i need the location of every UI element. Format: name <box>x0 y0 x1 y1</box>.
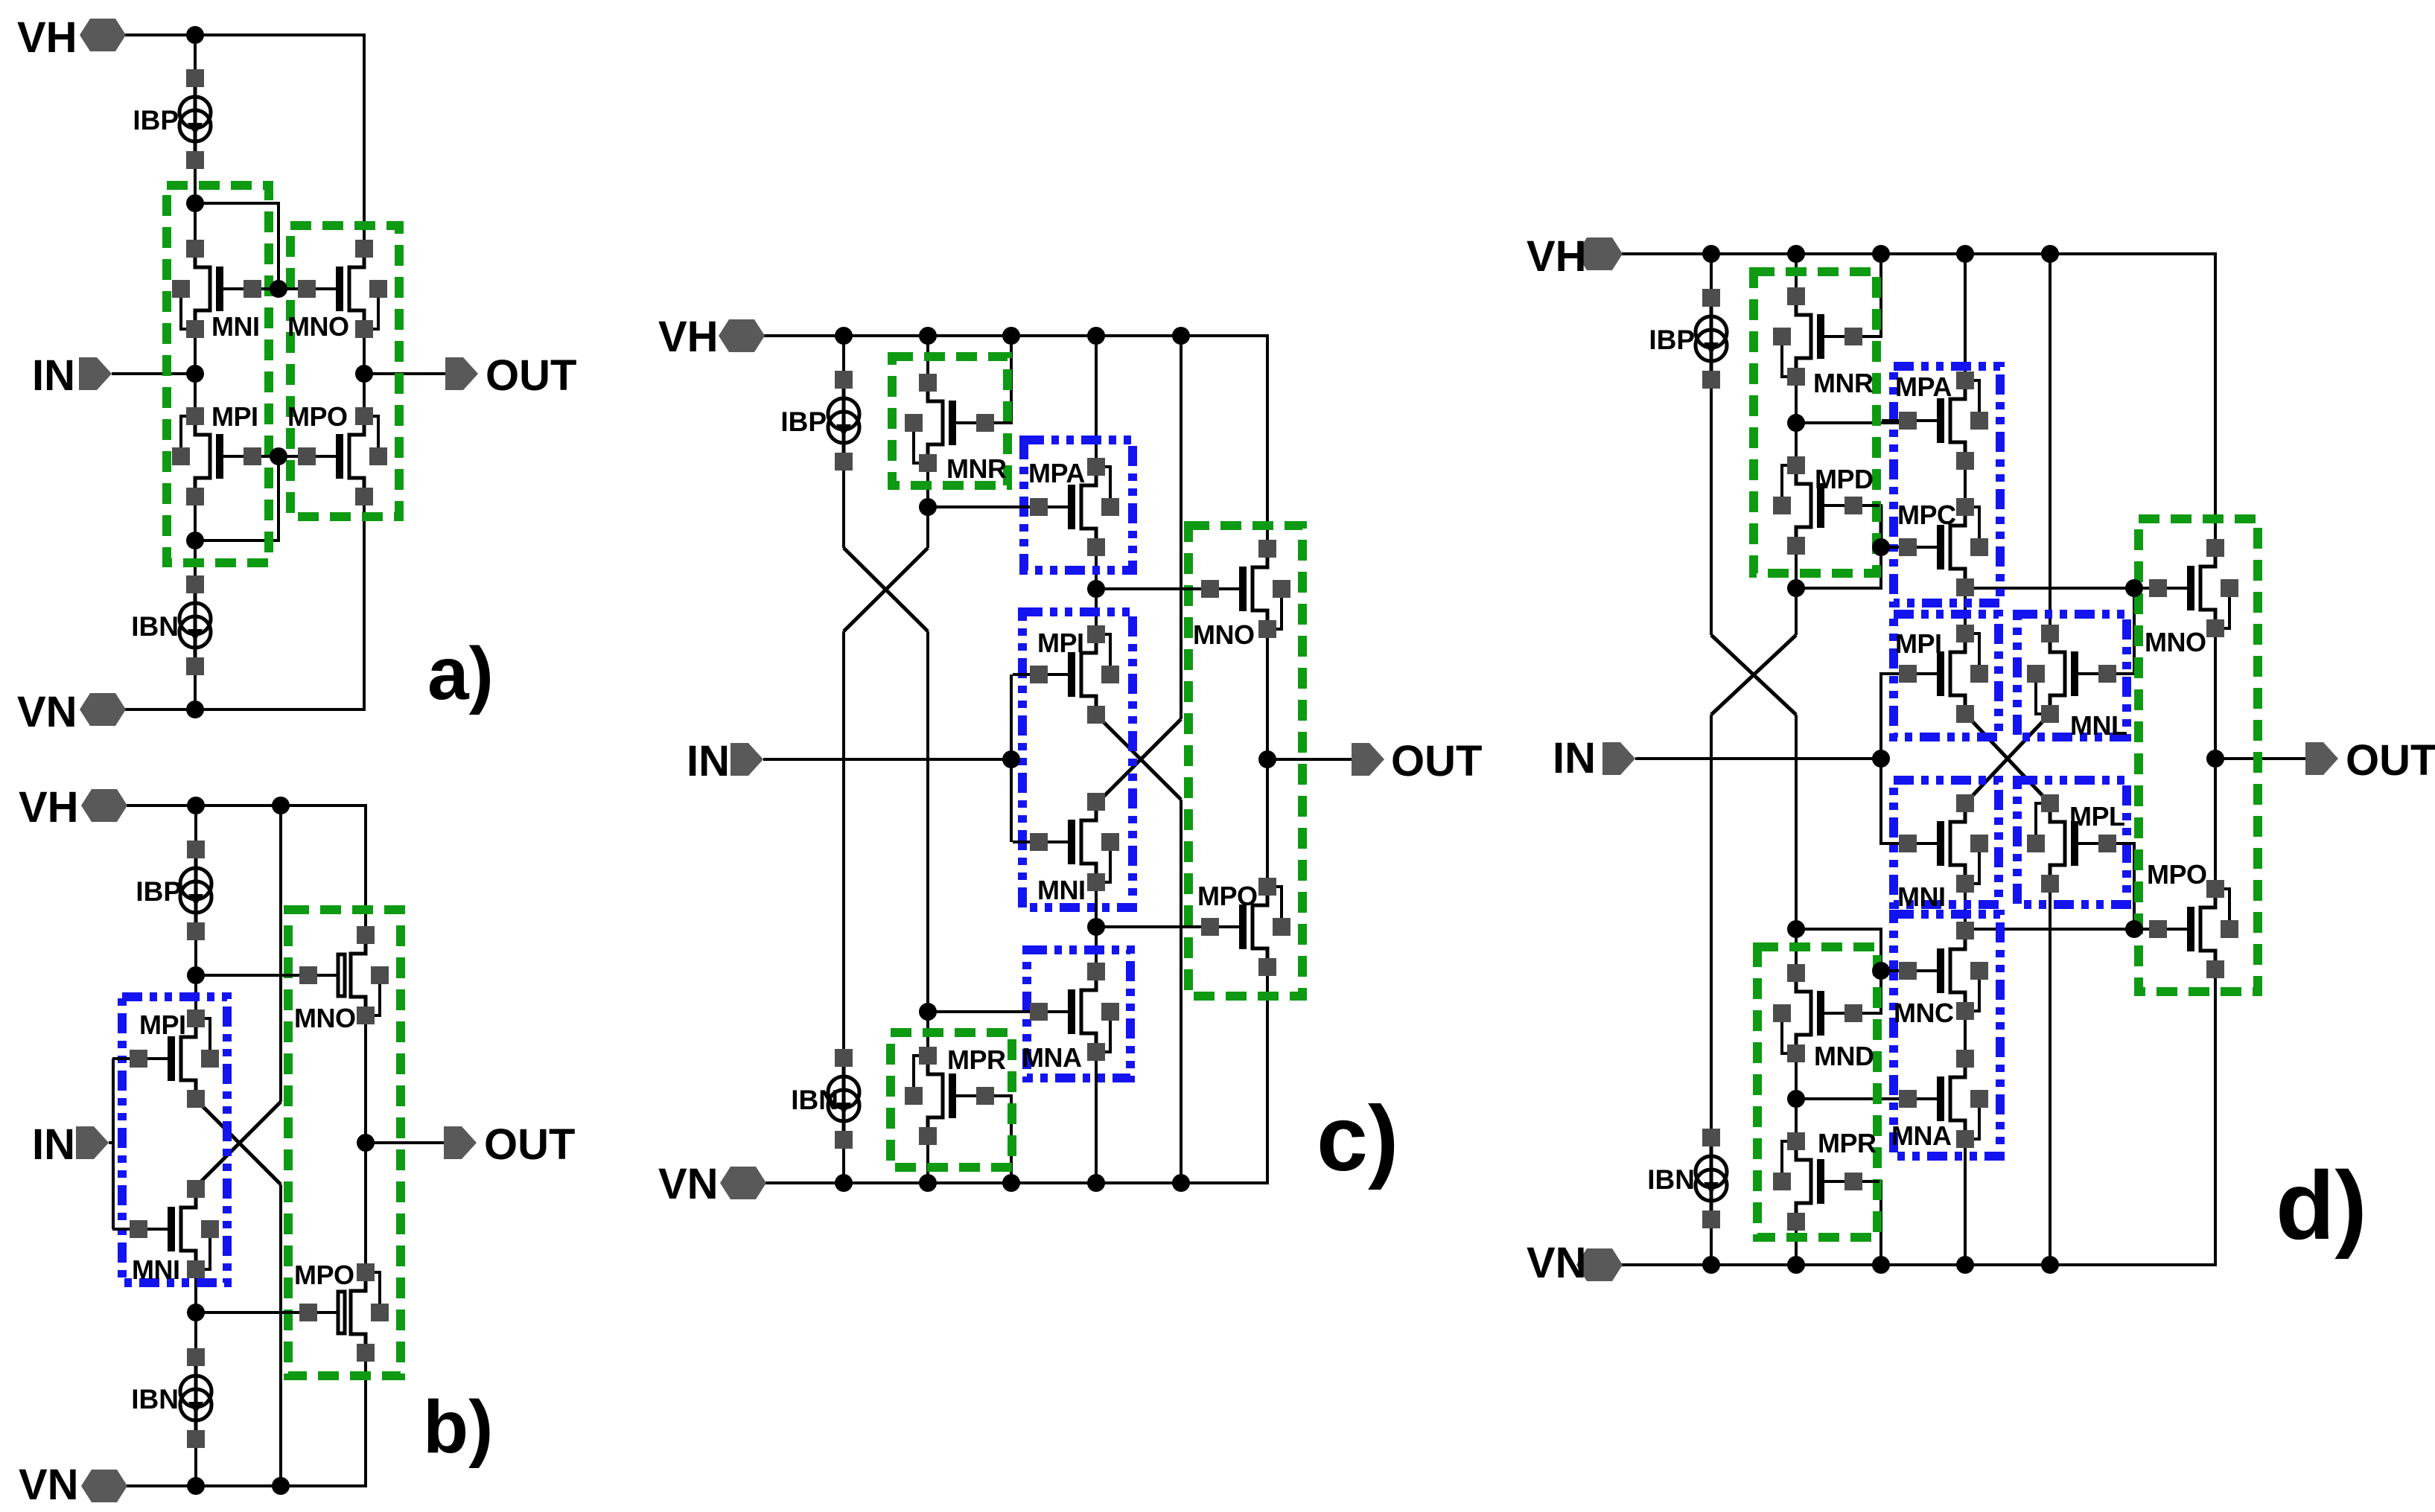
wire d MPD diode tie <box>1796 505 1881 588</box>
node c VN junction 5 <box>1172 1174 1190 1192</box>
wire d MNI to MNC <box>1964 884 1967 929</box>
node b IBP node <box>187 966 205 984</box>
node c VH junction 3 <box>1002 327 1020 345</box>
wire a left low column <box>194 497 197 584</box>
wire c MNI node to MPO gate <box>1096 925 1212 928</box>
svg-text:MPA: MPA <box>1028 458 1085 488</box>
transistor MNR c <box>905 374 1011 484</box>
wire d MNO gate row <box>1974 587 2158 590</box>
transistor MNL d <box>2027 625 2133 741</box>
highlight box d output pair box <box>2139 519 2258 992</box>
node a OUT node <box>355 365 373 383</box>
highlight box d MPA MPC box <box>1894 366 2000 603</box>
svg-text:VN: VN <box>19 1461 79 1509</box>
svg-text:IBN: IBN <box>131 611 179 642</box>
highlight box c MPA box <box>1024 440 1133 570</box>
node d MND source node <box>1787 1090 1805 1108</box>
terminal IN b <box>32 1120 109 1169</box>
node c VH junction 5 <box>1172 327 1190 345</box>
node a VN junction <box>186 701 204 718</box>
svg-text:MPI: MPI <box>139 1009 186 1040</box>
wire c B column lower <box>926 631 929 1056</box>
wire c VH rail and right drop <box>764 336 1267 549</box>
terminal OUT b <box>444 1120 575 1169</box>
node c IN node <box>1002 750 1020 768</box>
highlight box d MPI box <box>1894 614 1999 737</box>
transistor MPL d <box>2027 794 2133 893</box>
node d VH junction 2 <box>1787 245 1805 263</box>
transistor MNO b <box>282 926 389 1033</box>
wire b IBP node to MNO gate <box>196 974 337 977</box>
transistor MNO c <box>1184 540 1290 650</box>
node d OUT node <box>2206 750 2224 768</box>
wire c right cross B <box>1098 717 1181 800</box>
highlight box b output pair box <box>288 910 401 1376</box>
highlight box b input pair box <box>122 997 227 1283</box>
transistor MNI c <box>1013 793 1119 905</box>
transistor MPI c <box>1013 625 1119 724</box>
wire a IN wire <box>112 372 195 375</box>
transistor MPO c <box>1184 878 1290 976</box>
svg-text:OUT: OUT <box>2346 736 2435 785</box>
wire a IBN to VN <box>194 666 197 709</box>
node c VH junction 1 <box>835 327 853 345</box>
wire d IBN column <box>1710 715 1713 1265</box>
wire d MPA to MPC <box>1964 461 1967 507</box>
svg-text:IN: IN <box>32 351 75 400</box>
wire d MPA drain to VH <box>1964 254 1967 380</box>
node c MNI drain node <box>1087 918 1105 936</box>
terminal OUT d <box>2305 736 2435 785</box>
svg-text:b): b) <box>423 1385 493 1469</box>
wire d mid cross A <box>1969 718 2046 800</box>
transistor MPO <box>281 401 387 505</box>
wire d MNO gate drop <box>2106 588 2134 674</box>
wire b MNI to IBN node <box>194 1269 197 1356</box>
svg-text:IBP: IBP <box>136 876 182 907</box>
terminal VN d <box>1527 1239 1623 1287</box>
wire d VN rail and right rise <box>1616 969 2215 1265</box>
wire c IN wire <box>763 758 1011 761</box>
highlight box d MPL box <box>2017 780 2127 905</box>
terminal VH d <box>1527 232 1623 281</box>
svg-text:MNA: MNA <box>1891 1120 1952 1151</box>
wire b cross B <box>198 1102 281 1184</box>
node c VH junction 2 <box>919 327 937 345</box>
svg-text:MPI: MPI <box>1037 628 1084 658</box>
node d MPD drain node <box>1787 579 1805 597</box>
node b VN junction 2 <box>272 1477 290 1495</box>
transistor MNI b <box>112 1180 219 1285</box>
wire c MPA drain to VH <box>1095 336 1098 467</box>
transistor MNA d <box>1882 1050 1988 1151</box>
transistor MNC d <box>1882 922 1988 1028</box>
terminal VH a <box>17 13 126 62</box>
wire d VH rail and right drop <box>1616 254 2215 548</box>
wire d MNA gate row <box>1796 1097 1908 1100</box>
svg-text:VN: VN <box>658 1160 719 1208</box>
wire c MPR source to VN <box>926 1136 929 1183</box>
wire d mid cross B <box>1969 718 2046 800</box>
svg-text:MPR: MPR <box>947 1044 1006 1075</box>
wire c MNO to OUT <box>1266 629 1269 887</box>
current source IBN <box>131 575 211 675</box>
current source IBN d <box>1647 1129 1727 1228</box>
svg-text:MPO: MPO <box>294 1260 354 1290</box>
transistor MPI <box>172 401 278 505</box>
svg-text:MNL: MNL <box>2070 710 2127 741</box>
terminal VN c <box>658 1160 766 1208</box>
node d VH junction 3 <box>1872 245 1890 263</box>
node d MNR source node <box>1787 414 1805 432</box>
node d VH junction 4 <box>1956 245 1974 263</box>
transistor MNI d <box>1882 794 1988 912</box>
svg-text:c): c) <box>1317 1088 1398 1190</box>
svg-text:IBN: IBN <box>791 1085 838 1115</box>
node d IN node <box>1872 750 1890 768</box>
transistor MPR c <box>905 1044 1011 1145</box>
wire d MNO to OUT <box>2214 628 2217 889</box>
svg-text:MNA: MNA <box>1022 1042 1082 1073</box>
highlight box a output pair box <box>290 226 399 517</box>
node a IN node <box>186 365 204 383</box>
node d MND drain node <box>1787 920 1805 938</box>
node c MNR source node <box>919 498 937 516</box>
svg-text:MPL: MPL <box>2069 801 2125 832</box>
svg-text:OUT: OUT <box>1391 737 1482 785</box>
wire b cross vertical lower <box>279 1184 282 1486</box>
svg-text:MNO: MNO <box>287 311 349 342</box>
svg-text:VH: VH <box>17 13 77 62</box>
svg-text:MPR: MPR <box>1818 1128 1877 1158</box>
wire b cross vertical upper <box>279 806 282 1102</box>
wire a left mid column <box>194 329 197 416</box>
wire c MNI to MNA <box>1095 882 1098 972</box>
current source IBP c <box>780 371 859 470</box>
node b VH junction 1 <box>187 797 205 814</box>
node b VN junction 1 <box>187 1477 205 1495</box>
transistor MNO <box>281 240 387 342</box>
wire d MND column <box>1795 715 1798 973</box>
svg-text:VH: VH <box>1527 232 1587 281</box>
node d VN junction 4 <box>1956 1256 1974 1274</box>
transistor MPC d <box>1882 498 1988 596</box>
wire b IBP column <box>194 806 197 1018</box>
transistor MPR d <box>1773 1128 1879 1231</box>
transistor MPA c <box>1013 458 1119 556</box>
wire c right cross A <box>1098 719 1181 802</box>
node b OUT node <box>357 1134 375 1152</box>
transistor MPO b <box>282 1260 389 1362</box>
wire d MNC gate row <box>1881 969 1908 972</box>
wire b IBN node to MPO gate <box>196 1311 337 1314</box>
node d VN junction 1 <box>1702 1256 1720 1274</box>
wire d MND to MPR <box>1795 1055 1798 1141</box>
svg-text:MNO: MNO <box>2145 627 2206 657</box>
svg-text:VH: VH <box>19 783 79 832</box>
node d VN junction 5 <box>2041 1256 2059 1274</box>
node d MNC gate node <box>1872 962 1890 980</box>
svg-text:VN: VN <box>17 688 77 736</box>
wire c MPR gate to VN <box>956 1096 1011 1183</box>
highlight box c output pair box <box>1188 526 1302 996</box>
highlight box d MNR MPD box <box>1754 272 1877 573</box>
terminal VN b <box>19 1461 127 1509</box>
wire a MPI diode tie <box>195 456 278 540</box>
wire c MPA node to MNO gate <box>1096 587 1212 590</box>
svg-text:VH: VH <box>658 313 719 361</box>
svg-text:MNI: MNI <box>1037 875 1086 905</box>
wire b VH rail and right drop <box>127 806 366 935</box>
svg-text:d): d) <box>2276 1151 2367 1260</box>
wire a OUT wire <box>364 372 447 375</box>
wire d MNL drain to VH <box>2049 254 2052 634</box>
node d MNO gate node <box>2125 579 2143 597</box>
svg-text:a): a) <box>427 632 494 715</box>
wire c cross vertical lower <box>1180 800 1183 1183</box>
svg-text:IBN: IBN <box>1647 1164 1695 1195</box>
node a VH junction <box>186 26 204 44</box>
node b VH junction 2 <box>272 797 290 814</box>
svg-text:OUT: OUT <box>486 351 576 400</box>
node c VN junction 3 <box>1002 1174 1020 1192</box>
svg-text:IN: IN <box>687 737 730 785</box>
wire b MNO to OUT <box>364 1015 367 1272</box>
wire d IN wire <box>1635 757 1881 760</box>
node d MPO gate node <box>2125 920 2143 938</box>
transistor MNA c <box>1013 963 1119 1073</box>
wire c OUT wire <box>1267 758 1352 761</box>
node c VN junction 2 <box>919 1174 937 1192</box>
svg-text:VN: VN <box>1527 1239 1587 1287</box>
wire d MPR gate to VN <box>1824 1181 1881 1265</box>
terminal OUT c <box>1352 737 1482 785</box>
wire d MNC to MNA <box>1964 1011 1967 1059</box>
highlight box d MNC MNA box <box>1894 914 2000 1156</box>
wire d MNRsrc to MPA gate <box>1796 421 1908 424</box>
transistor MNR d <box>1773 287 1879 398</box>
svg-text:IBP: IBP <box>133 105 179 135</box>
terminal VH c <box>658 313 765 361</box>
wire c MPA to MPI <box>1095 547 1098 634</box>
current source IBP b <box>136 840 211 940</box>
svg-text:MPA: MPA <box>1895 371 1952 402</box>
terminal OUT a <box>445 351 576 400</box>
highlight box c input pair box <box>1022 612 1133 907</box>
terminal IN d <box>1553 734 1635 782</box>
node d VN junction 3 <box>1872 1256 1890 1274</box>
svg-text:MNC: MNC <box>1894 998 1954 1028</box>
wire c VN rail and right rise <box>765 967 1267 1183</box>
svg-text:MNI: MNI <box>211 311 260 342</box>
highlight box c MPR box <box>891 1033 1012 1167</box>
node a N gate node <box>270 280 287 298</box>
wire b IN rail <box>109 1059 113 1229</box>
node d VN junction 2 <box>1787 1256 1805 1274</box>
node c VN junction 4 <box>1087 1174 1105 1192</box>
svg-text:MPD: MPD <box>1815 464 1874 494</box>
wire d MPC gate row <box>1881 546 1908 549</box>
transistor MNO d <box>2132 539 2238 657</box>
wire d OUT wire <box>2215 757 2305 760</box>
wire d MPD to cross <box>1795 546 1798 635</box>
wire c IBP column <box>842 336 845 548</box>
svg-text:IBP: IBP <box>780 406 827 437</box>
transistor MPD d <box>1773 456 1879 555</box>
wire b OUT wire <box>366 1141 447 1144</box>
wire c left cross B <box>844 548 928 631</box>
wire c MNR node to MPA gate <box>928 505 1040 508</box>
node c MNA gate node <box>919 1003 937 1021</box>
svg-text:IN: IN <box>1553 734 1596 782</box>
node d MPC gate node <box>1872 538 1890 556</box>
wire d MPC gate drop <box>1879 505 1883 547</box>
transistor MNI <box>172 240 278 342</box>
highlight box c MNR box <box>892 357 1008 485</box>
node a MPI drain node <box>186 532 204 549</box>
svg-text:MNO: MNO <box>1193 619 1255 650</box>
wire a IBP column <box>194 35 197 249</box>
transistor MPI d <box>1882 625 1988 723</box>
wire b VN rail and right rise <box>127 1353 366 1486</box>
wire a VN rail and right rise <box>123 497 364 709</box>
wire a VH rail and right drop <box>125 35 364 249</box>
wire d MNR to MPD <box>1795 377 1798 465</box>
node a MNI drain node <box>186 194 204 212</box>
wire b IBN to VN <box>194 1441 197 1486</box>
svg-text:MPO: MPO <box>1197 881 1258 911</box>
highlight box d MNI box <box>1894 780 1999 905</box>
current source IBP d <box>1649 289 1727 389</box>
wire a MNI diode tie <box>195 203 278 289</box>
node c VH junction 4 <box>1087 327 1105 345</box>
svg-text:MPC: MPC <box>1897 500 1956 530</box>
highlight box c MNA box <box>1027 950 1130 1078</box>
svg-text:MPO: MPO <box>287 401 348 432</box>
node c VN junction 1 <box>835 1174 853 1192</box>
current source IBP <box>133 69 211 169</box>
wire d MND diode tie <box>1796 929 1881 1013</box>
wire d MPO gate row <box>1974 928 2158 931</box>
transistor MPO d <box>2132 859 2238 978</box>
wire d MPI gate to IN rail <box>1881 674 1908 843</box>
wire d MPR source to VN <box>1795 1222 1798 1265</box>
highlight box d MND MPR box <box>1757 947 1877 1237</box>
node b IBN node <box>187 1304 205 1321</box>
svg-text:MNR: MNR <box>1813 368 1874 398</box>
wire c left cross A <box>844 548 928 631</box>
wire d IBP column <box>1710 254 1713 635</box>
node d VH junction 5 <box>2041 245 2059 263</box>
node c MPA source node <box>1087 580 1105 598</box>
wire c MNA gate row <box>928 1010 1040 1013</box>
svg-text:MPI: MPI <box>1895 628 1942 659</box>
transistor MPI b <box>112 1009 219 1108</box>
wire c MNR source node column <box>926 463 929 548</box>
wire d MPL source to VN <box>2049 884 2052 1265</box>
node d VH junction 1 <box>1702 245 1720 263</box>
svg-text:MND: MND <box>1814 1041 1874 1071</box>
node a P gate node <box>270 447 287 465</box>
wire a right mid column <box>363 329 366 416</box>
svg-text:IN: IN <box>32 1120 75 1169</box>
svg-text:MNI: MNI <box>132 1254 180 1285</box>
wire c cross vertical upper <box>1180 336 1183 719</box>
wire d left cross A <box>1711 635 1796 715</box>
svg-text:IBP: IBP <box>1649 325 1695 355</box>
current source IBN b <box>131 1348 211 1448</box>
svg-text:MNO: MNO <box>294 1003 356 1033</box>
wire c IBN column <box>842 631 845 1183</box>
svg-text:IBN: IBN <box>131 1384 179 1414</box>
highlight box d MNL box <box>2017 614 2127 737</box>
svg-text:MNI: MNI <box>1897 881 1946 912</box>
wire d MPL gate rise <box>2106 843 2134 929</box>
current source IBN c <box>791 1049 859 1149</box>
wire d left cross B <box>1711 635 1796 715</box>
svg-text:MPI: MPI <box>211 401 258 432</box>
wire c MNR gate to VH <box>956 336 1011 423</box>
wire c MNA source to VN <box>1095 1052 1098 1183</box>
highlight box a input pair box <box>167 185 269 563</box>
wire c IN rail <box>1010 674 1013 842</box>
svg-text:OUT: OUT <box>484 1120 575 1169</box>
transistor MND d <box>1773 964 1879 1071</box>
wire d MNA source to VN <box>1964 1139 1967 1265</box>
wire c MNR drain <box>926 336 929 383</box>
transistor MPA d <box>1882 371 1988 470</box>
wire d MNR drain <box>1795 254 1798 296</box>
wire b cross A <box>198 1102 281 1184</box>
terminal IN a <box>32 351 112 400</box>
svg-text:MNR: MNR <box>946 453 1007 484</box>
node c OUT node <box>1258 750 1276 768</box>
terminal IN c <box>687 737 763 785</box>
svg-text:MPO: MPO <box>2147 859 2207 890</box>
wire d MPC to MPI <box>1964 587 1967 634</box>
terminal VH b <box>19 783 127 832</box>
wire d MNR gate to VH <box>1824 254 1881 336</box>
terminal VN a <box>17 688 126 736</box>
